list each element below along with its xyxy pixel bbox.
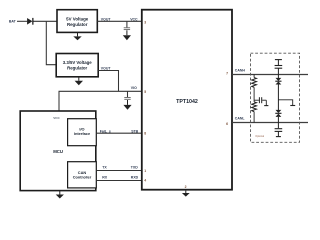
wire CANH bus bbox=[232, 74, 308, 76]
svg-text:5V Voltage: 5V Voltage bbox=[66, 17, 89, 22]
I/O Interface box bbox=[68, 119, 97, 146]
svg-text:VOUT: VOUT bbox=[101, 18, 112, 22]
svg-text:VCC: VCC bbox=[53, 116, 60, 120]
ground (C5) bbox=[276, 136, 281, 138]
MCU box bbox=[20, 111, 96, 191]
svg-text:3.3/5V Voltage: 3.3/5V Voltage bbox=[63, 60, 92, 65]
dashed termination network box bbox=[251, 53, 300, 142]
svg-text:MCU: MCU bbox=[53, 149, 63, 154]
ground (MCU) bbox=[56, 191, 64, 199]
TVS D2 (CANH clamp) bbox=[275, 75, 281, 111]
IC U1 TPT1042 box bbox=[142, 10, 232, 190]
svg-text:1: 1 bbox=[144, 169, 146, 173]
diode D1 bbox=[27, 18, 33, 25]
wire RX to RXD pin4 bbox=[96, 180, 142, 182]
ground (TVS centre) bbox=[290, 105, 295, 107]
svg-text:8: 8 bbox=[144, 132, 146, 136]
svg-text:CANH: CANH bbox=[235, 68, 246, 72]
svg-text:CANL: CANL bbox=[235, 117, 246, 121]
svg-text:VOUT: VOUT bbox=[101, 66, 112, 70]
svg-text:2: 2 bbox=[185, 185, 187, 189]
resistor R1 (termination upper) bbox=[252, 75, 257, 102]
5V Voltage Regulator box bbox=[57, 10, 97, 33]
svg-text:Controller: Controller bbox=[73, 175, 92, 180]
ground (C1) bbox=[123, 35, 131, 40]
svg-text:FaiL_s: FaiL_s bbox=[100, 129, 111, 133]
ground (IC pin 2) bbox=[182, 191, 190, 197]
ground (5V regulator) bbox=[73, 32, 81, 40]
svg-text:7: 7 bbox=[226, 72, 228, 76]
wire diode to 5V regulator bbox=[34, 20, 58, 22]
wire junction drop to 3.3/5V regulator input bbox=[46, 21, 56, 64]
svg-text:VCC: VCC bbox=[130, 17, 138, 21]
capacitor C2 (VIO) bbox=[124, 91, 130, 105]
wire CANL bus bbox=[232, 122, 308, 124]
svg-text:VIO: VIO bbox=[131, 86, 137, 90]
svg-text:TX: TX bbox=[102, 165, 107, 169]
svg-text:5: 5 bbox=[144, 90, 146, 94]
svg-text:Regulator: Regulator bbox=[67, 22, 88, 27]
resistor R2 (termination lower) bbox=[252, 102, 257, 123]
ground (3.3/5V regulator) bbox=[75, 77, 83, 86]
capacitor C1 (VCC) bbox=[124, 21, 130, 35]
svg-text:TXD: TXD bbox=[131, 165, 138, 169]
wire VIO down to MCU VCC bbox=[58, 91, 60, 111]
ground (C2) bbox=[123, 105, 131, 110]
wire Fail_s to STB pin8 bbox=[96, 132, 142, 134]
CAN Controller box bbox=[68, 162, 97, 188]
svg-text:Interface: Interface bbox=[74, 131, 91, 136]
svg-text:TPT1042: TPT1042 bbox=[176, 99, 198, 105]
svg-text:RXD: RXD bbox=[131, 176, 139, 180]
3.3/5V Voltage Regulator box bbox=[56, 54, 98, 77]
wire TVS centre to ground bbox=[278, 100, 292, 106]
TVS D3 (CANL clamp) bbox=[275, 110, 281, 123]
svg-text:RX: RX bbox=[102, 176, 108, 180]
wire VOUT(5V) to VCC pin3 bbox=[97, 20, 142, 22]
svg-text:Optional: Optional bbox=[255, 135, 264, 138]
svg-text:BAT: BAT bbox=[9, 19, 17, 23]
svg-text:STB: STB bbox=[131, 129, 138, 133]
wire VOUT(3.3/5V) down to VIO net bbox=[98, 71, 118, 92]
svg-text:6: 6 bbox=[226, 122, 228, 126]
svg-text:4: 4 bbox=[144, 179, 146, 183]
svg-text:Regulator: Regulator bbox=[67, 65, 87, 70]
wire VIO net to pin5 bbox=[59, 90, 142, 92]
svg-text:3: 3 bbox=[144, 21, 146, 25]
capacitor C3 (split termination) bbox=[254, 97, 266, 105]
wire BAT to diode bbox=[17, 20, 27, 22]
capacitor C5 (CANL filter, bottom) bbox=[275, 123, 283, 137]
ground (C3) bbox=[264, 105, 268, 107]
capacitor C4 (CANH filter, top) bbox=[275, 60, 283, 75]
wire TX to TXD pin1 bbox=[96, 170, 142, 172]
